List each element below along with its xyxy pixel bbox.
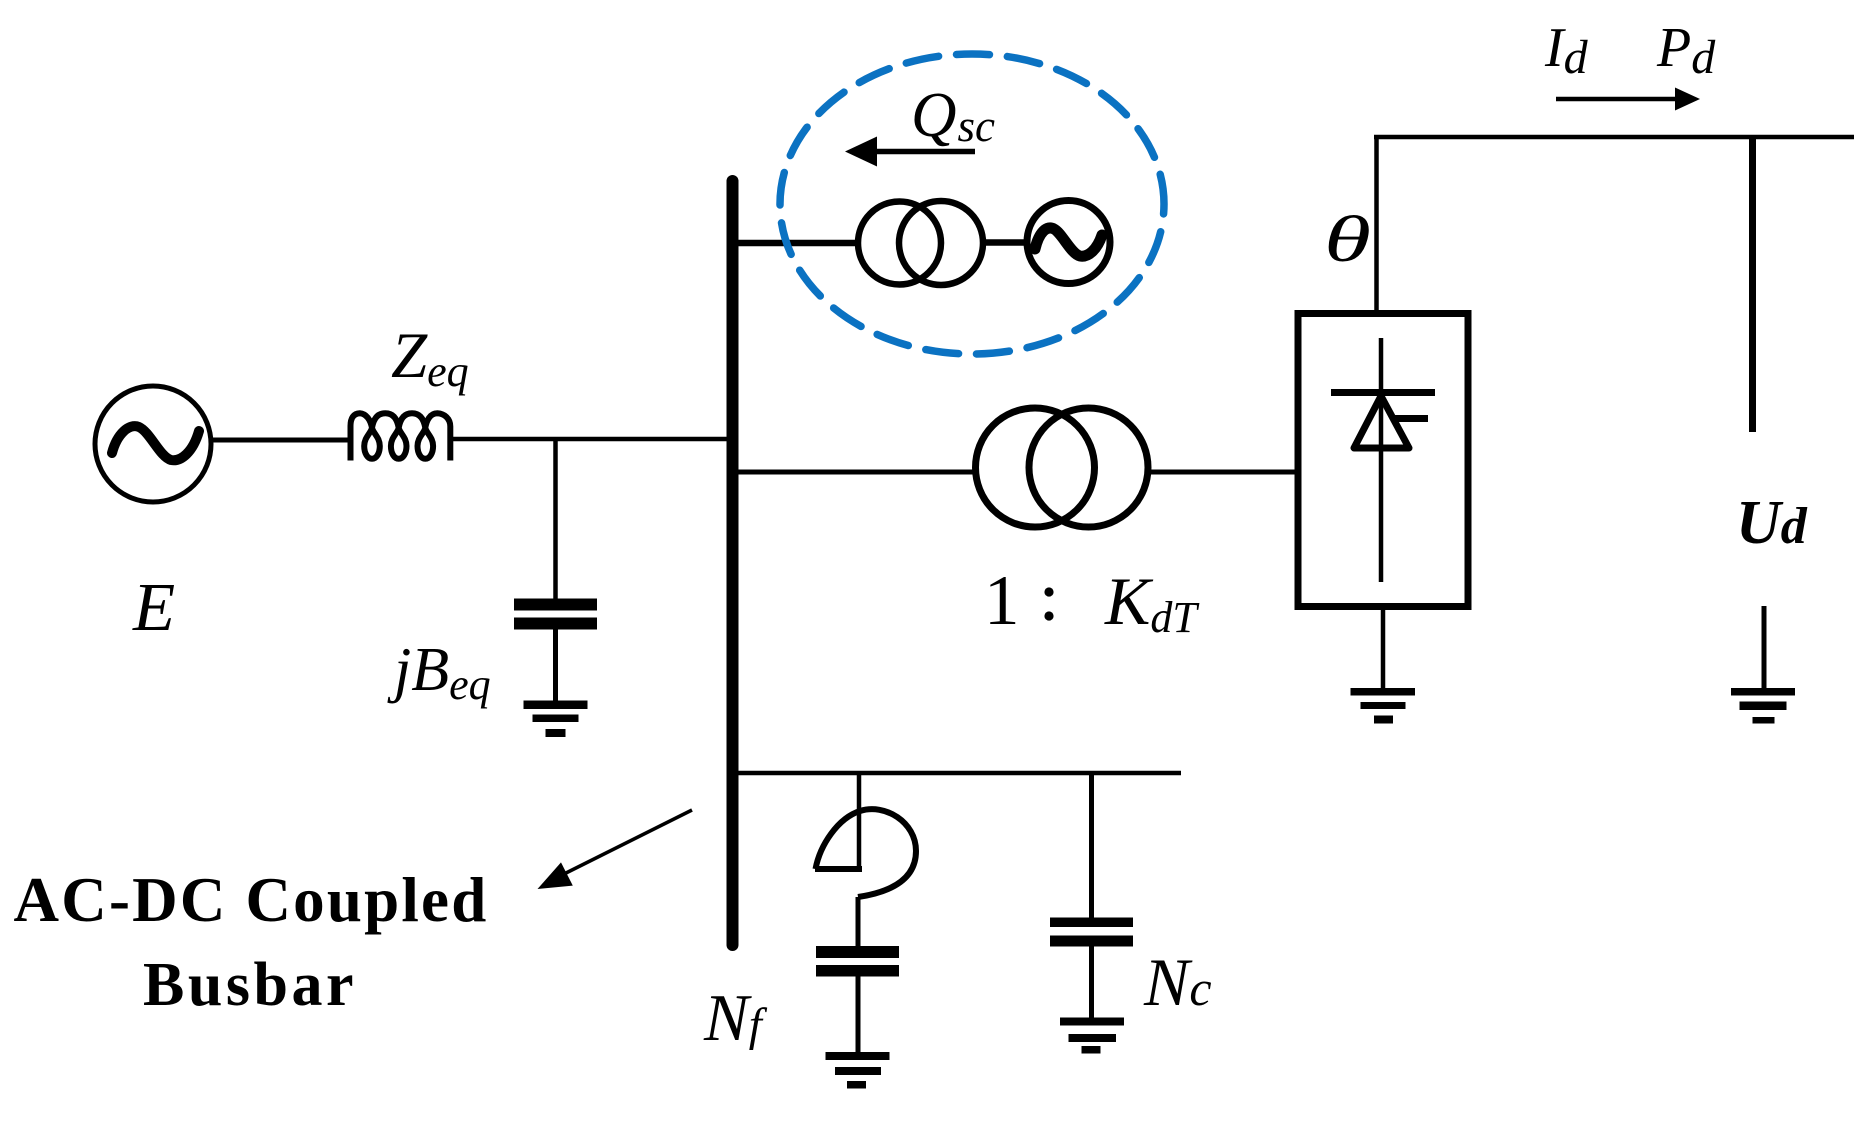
inductor Zeq xyxy=(351,413,451,460)
svg-text:Busbar: Busbar xyxy=(143,951,357,1019)
svg-text:θ: θ xyxy=(1324,202,1371,275)
annotation arrow to busbar xyxy=(566,810,692,873)
ground (right) xyxy=(1731,688,1795,724)
wire xyxy=(1150,470,1296,475)
capacitor branch Nc xyxy=(1089,773,1094,918)
thyristor xyxy=(1331,338,1435,582)
ground (filter) xyxy=(826,1052,890,1089)
busbar Nf xyxy=(727,181,739,945)
dashed ellipse xyxy=(780,54,1164,354)
bottom bus line xyxy=(737,771,1181,776)
wire junction down to capacitor xyxy=(553,439,558,599)
wire inductor to busbar xyxy=(452,437,727,442)
filter capacitor xyxy=(816,946,899,977)
dc top line xyxy=(1374,135,1854,140)
dc right vertical wire xyxy=(1749,137,1756,432)
ac source E xyxy=(95,386,211,502)
wire xyxy=(984,239,1026,246)
svg-text:Ud: Ud xyxy=(1736,489,1808,557)
ground xyxy=(524,701,588,738)
wire converter top xyxy=(1374,137,1379,310)
ground (Nc) xyxy=(1060,1018,1124,1054)
converter box xyxy=(1298,314,1468,607)
svg-text:1: 1 xyxy=(984,562,1020,640)
wire busbar to top transformer xyxy=(737,240,858,247)
transformer 1:KdT xyxy=(976,408,1149,527)
wire converter bottom xyxy=(1381,610,1386,689)
svg-text:E: E xyxy=(132,569,175,645)
svg-text:AC-DC Coupled: AC-DC Coupled xyxy=(14,865,489,935)
arrow Id Pd xyxy=(1556,97,1680,102)
wire busbar to mid transformer xyxy=(737,470,975,475)
wire E to inductor xyxy=(211,438,352,443)
ground (converter) xyxy=(1351,688,1416,724)
arrow Qsc xyxy=(874,149,975,155)
wire xyxy=(553,630,558,703)
ac source (top right) xyxy=(1027,201,1110,284)
filter branch wire xyxy=(857,773,862,871)
filter hook xyxy=(816,809,917,897)
transformer (top) xyxy=(858,201,983,285)
wire above right ground xyxy=(1762,606,1767,689)
capacitor jBeq xyxy=(514,599,597,630)
